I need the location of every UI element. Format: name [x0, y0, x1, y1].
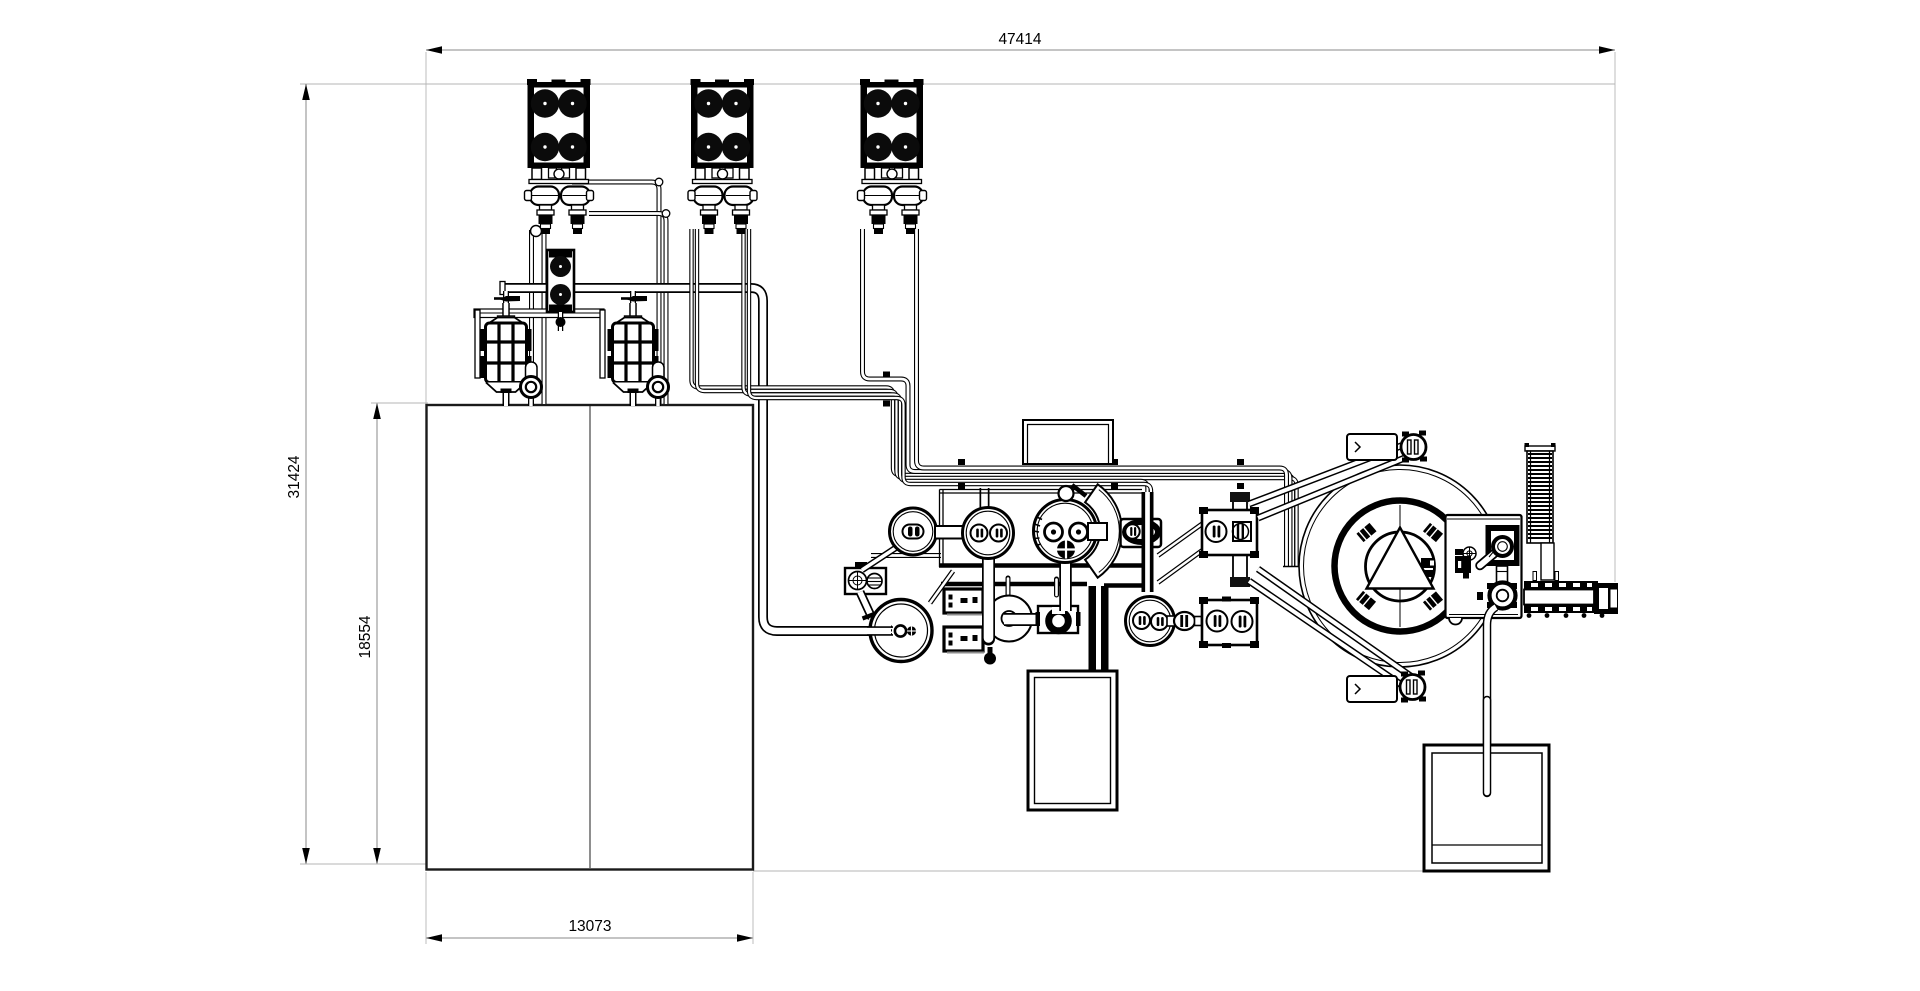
bottom trunnion roller	[1400, 671, 1426, 703]
extension line top width left	[425, 52, 427, 404]
pump F	[1126, 597, 1175, 646]
skid frame bottom edge	[939, 563, 1152, 568]
flange box	[1036, 606, 1081, 633]
skid inner rail right	[1104, 583, 1146, 588]
thin diagonal braces	[1157, 521, 1203, 554]
two-roll feeder	[547, 250, 574, 331]
dimension 31424 (left overall height)	[286, 84, 310, 864]
mixing vessel 1	[481, 291, 542, 406]
pump B	[963, 508, 1014, 559]
support pin 1	[1006, 578, 1011, 595]
pipe from unit1 left valve down b	[542, 226, 547, 404]
pipe clamp B1 bundle	[883, 372, 890, 378]
control box ear	[1449, 618, 1462, 625]
mill pump E	[867, 600, 932, 662]
black drop pipe to bin b	[1101, 586, 1109, 672]
support strut small	[930, 571, 953, 603]
skid top rail double line	[871, 553, 941, 558]
bottom roller bracket	[1347, 676, 1397, 702]
black drop pipe to bin a	[1089, 586, 1097, 672]
tank divider wall	[589, 406, 591, 868]
strut to bottom roller a	[1249, 581, 1406, 688]
machine H lower	[1199, 597, 1259, 649]
horizontal pipe donut to flange	[1004, 613, 1044, 626]
extruder unit 2	[688, 79, 757, 234]
kneader C	[1034, 485, 1108, 563]
screw conveyor	[1524, 572, 1618, 618]
strut to top roller a	[1249, 444, 1406, 504]
connector F-G	[1167, 616, 1176, 626]
vessel support beam	[474, 309, 604, 318]
pipe bundle unit2 left pair	[692, 229, 1294, 566]
junction box 2	[944, 627, 984, 653]
pipe bundle unit2 right pair (feeds downcomer)	[744, 229, 1148, 592]
svg-text:31424: 31424	[286, 455, 303, 498]
arm bracket to pump A	[862, 547, 897, 570]
oval coupling G	[1174, 612, 1195, 630]
drain valve black	[988, 647, 993, 654]
strut to bottom roller b	[1258, 569, 1412, 677]
pipe unit1 to vessels upper run	[572, 182, 659, 404]
skid frame top edge	[940, 489, 1143, 491]
svg-text:13073: 13073	[568, 918, 611, 935]
unit1 elbow joint	[531, 226, 542, 237]
control box	[1446, 515, 1522, 618]
connector A-B	[935, 526, 965, 539]
dimension 13073 (tank width, bottom)	[426, 872, 753, 944]
extension line overall top	[300, 83, 1615, 85]
long supply pipe from vessel header down to mill pump	[504, 288, 894, 631]
mixing vessel 2	[608, 291, 669, 406]
pump D small	[1121, 519, 1162, 547]
extension line bottom overall	[300, 863, 430, 865]
pump A	[890, 508, 937, 555]
collection bin below skid	[1028, 671, 1117, 810]
downcomer pipe over pump D	[1142, 492, 1154, 592]
bin 2	[1424, 700, 1549, 871]
skid inner rail left	[941, 582, 1087, 587]
pipe from unit1 left valve down a	[529, 230, 534, 404]
floor line right of tank	[753, 870, 1424, 872]
column between H and I	[1233, 495, 1247, 585]
dimension 47414 (top width)	[426, 31, 1615, 54]
extruder unit 1	[525, 79, 594, 234]
fin cooler stack	[1525, 443, 1556, 580]
drop pipe to bin 2	[1487, 607, 1496, 790]
svg-text:18554: 18554	[357, 615, 374, 658]
machine I upper	[1199, 507, 1259, 558]
feeder drain valve	[558, 312, 564, 331]
header pipe start cap	[500, 282, 505, 295]
dimension 18554 (tank height)	[357, 403, 428, 864]
arm bracket to mill pump	[860, 592, 872, 618]
elbow joint a	[655, 178, 663, 186]
pipe down from kneader	[1059, 561, 1072, 611]
pipe bundle unit3 left	[863, 229, 1291, 566]
storage tank	[427, 405, 754, 870]
support pin 2	[1054, 579, 1059, 595]
riser pipe to pump B	[980, 488, 990, 508]
pipe bundle unit3 right	[917, 229, 1287, 566]
svg-text:47414: 47414	[998, 31, 1041, 48]
top trunnion roller	[1401, 431, 1427, 463]
top roller bracket	[1347, 434, 1397, 460]
extruder unit 3	[858, 79, 927, 234]
kneader wedge	[1085, 484, 1122, 577]
strut to top roller b	[1258, 455, 1412, 518]
skid frame left edge	[939, 490, 941, 568]
hood over bundle	[1023, 420, 1113, 464]
junction box 1	[944, 589, 984, 615]
U-bend donut	[986, 596, 1032, 642]
agitator bracket box	[845, 562, 886, 594]
pipe unit1 lower branch	[589, 214, 666, 405]
drum mixer	[1299, 465, 1501, 667]
elbow joint b	[662, 210, 670, 218]
SVG content groups inserted below	[286, 31, 1615, 944]
pipe clamps B2 bundle	[958, 459, 965, 465]
extension line top width right	[1614, 52, 1616, 582]
pipe down from pump B	[982, 557, 995, 639]
bundle column bottom cap	[1283, 566, 1301, 568]
